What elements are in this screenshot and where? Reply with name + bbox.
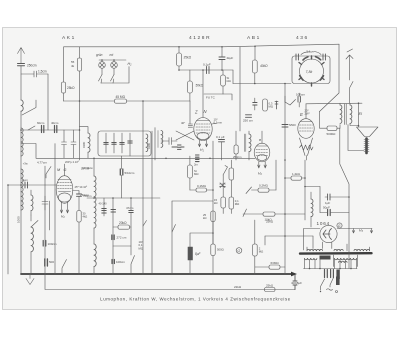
svg-text:El: El bbox=[359, 111, 363, 116]
wire cap branch down bbox=[47, 74, 49, 130]
svg-text:rot: rot bbox=[110, 53, 114, 57]
AB1 tube base bbox=[257, 155, 267, 161]
svg-text:0,2MΩ: 0,2MΩ bbox=[259, 184, 269, 188]
switch above L3 bbox=[31, 215, 38, 227]
coil osc lower bbox=[94, 244, 96, 266]
resistor 0,3M bbox=[263, 99, 268, 111]
svg-text:E: E bbox=[300, 112, 303, 117]
switch S2 bbox=[46, 167, 51, 179]
tone cap 50uF bbox=[328, 210, 331, 216]
wire x190 avc bbox=[189, 156, 191, 190]
resistor .55 bbox=[77, 58, 81, 71]
wire y143 link bbox=[21, 144, 36, 159]
wire y267 bbox=[255, 266, 285, 268]
coil 0370 bbox=[94, 176, 96, 228]
svg-text:22kΩ: 22kΩ bbox=[234, 285, 242, 289]
HV winding left bbox=[307, 249, 323, 250]
wire tube E bottom bbox=[305, 156, 307, 161]
svg-text:7,8k: 7,8k bbox=[306, 70, 313, 74]
heater feed line y101 bbox=[64, 100, 191, 102]
svg-text:35kΩ: 35kΩ bbox=[184, 56, 192, 60]
tube MG base bbox=[58, 193, 70, 202]
mixer tube AK1 bbox=[194, 118, 212, 141]
tuning line y130 bbox=[21, 129, 79, 131]
svg-text:200°μ 2·106: 200°μ 2·106 bbox=[65, 160, 79, 164]
drum segments bbox=[299, 56, 324, 86]
tube grids bbox=[196, 124, 210, 133]
resistor 100k small bbox=[234, 145, 238, 154]
mains tilde bbox=[327, 289, 333, 290]
tube E grids bbox=[300, 125, 313, 131]
svg-text:5/10cm: 5/10cm bbox=[125, 171, 135, 175]
svg-text:45 MΩ: 45 MΩ bbox=[116, 95, 126, 99]
wire x285 HT column bbox=[284, 84, 286, 275]
filter section wire b bbox=[113, 133, 115, 153]
capacitor 250cm det bbox=[246, 115, 252, 118]
wire x213 column bbox=[212, 141, 214, 244]
padder cap right bbox=[323, 54, 325, 60]
wire 30k bottom bbox=[78, 222, 80, 274]
header labels bbox=[62, 35, 309, 41]
tone cap 1uF bbox=[328, 194, 330, 200]
wire y178 bbox=[285, 177, 305, 179]
svg-text:2kμF: 2kμF bbox=[227, 56, 234, 60]
oscillator shield outline bbox=[320, 44, 340, 111]
resistor 1,2M horiz bbox=[291, 176, 302, 180]
switch on y130 bbox=[28, 126, 35, 130]
output transformer secondary bbox=[350, 105, 352, 123]
svg-text:4,77cm: 4,77cm bbox=[37, 161, 47, 165]
wave switch S1 bbox=[22, 100, 36, 115]
node box-x113 bbox=[112, 197, 114, 199]
cap NS bbox=[282, 125, 288, 128]
wire elco bbox=[190, 233, 213, 274]
rectifier cathode bbox=[323, 229, 332, 240]
resistor 0,3M right bbox=[221, 75, 226, 86]
svg-text:500Ω: 500Ω bbox=[217, 248, 224, 252]
wire x222 bbox=[221, 47, 223, 70]
wire x276 bbox=[275, 160, 277, 190]
resistor 15k bbox=[221, 197, 226, 208]
ground symbol bbox=[26, 274, 34, 285]
trimmer b bbox=[112, 143, 116, 145]
IF transformer coil bbox=[249, 134, 251, 152]
svg-text:Lumophon, Kraftton W, Wechsels: Lumophon, Kraftton W, Wechselstrom, 1 Vo… bbox=[100, 297, 291, 302]
transformer core bbox=[345, 104, 347, 125]
svg-text:250cm: 250cm bbox=[80, 193, 90, 197]
svg-text:45°°10·106: 45°°10·106 bbox=[75, 185, 88, 189]
node box-x94 bbox=[93, 197, 95, 199]
return wire bottom bbox=[45, 274, 295, 290]
wire x223 bbox=[222, 70, 224, 94]
filter section wire a bbox=[105, 133, 107, 153]
wire antenna down bbox=[20, 66, 22, 100]
HV winding outer drops bbox=[307, 244, 370, 251]
heater line right bbox=[337, 228, 372, 230]
svg-text:0,1MΩ: 0,1MΩ bbox=[197, 184, 207, 188]
grid cap bbox=[188, 101, 192, 127]
node x143-y101 bbox=[142, 100, 144, 102]
tube MG grids bbox=[58, 183, 72, 189]
svg-text:250 cm: 250 cm bbox=[243, 119, 253, 123]
osc wire bbox=[285, 93, 299, 107]
antenna coil L1 bbox=[21, 100, 23, 111]
avc resistor network: resistor 0,1M vert bbox=[188, 165, 193, 178]
wire x213 bias bbox=[212, 233, 214, 274]
tube side tap bbox=[212, 122, 217, 125]
node x285-y214 bbox=[284, 213, 286, 215]
switch near bottom x64 bbox=[62, 260, 67, 275]
resistor 5000 bbox=[327, 126, 337, 130]
wire x265 stub bbox=[264, 236, 266, 245]
wire x55 column bbox=[54, 144, 56, 275]
svg-text:1000: 1000 bbox=[16, 216, 20, 223]
wire avc right column bbox=[223, 160, 231, 214]
wire 20k left bbox=[113, 226, 131, 228]
line y236 bbox=[265, 235, 313, 237]
node x285-y178 bbox=[284, 177, 286, 179]
svg-text:4k: 4k bbox=[71, 64, 75, 68]
svg-text:25kΩ: 25kΩ bbox=[266, 220, 274, 224]
svg-text:0,1mm: 0,1mm bbox=[214, 121, 223, 125]
svg-text:N500: N500 bbox=[289, 123, 296, 127]
wire x143 long column bbox=[142, 101, 144, 274]
resistor right a bbox=[229, 168, 234, 180]
tube MG left bottom lead bbox=[49, 201, 51, 230]
resistor 20k bbox=[118, 225, 130, 229]
svg-text:4128R: 4128R bbox=[189, 35, 211, 41]
coil L4 bbox=[31, 195, 33, 211]
svg-text:AK1: AK1 bbox=[62, 35, 76, 41]
svg-text:MΩ: MΩ bbox=[259, 250, 263, 254]
coil L2b bbox=[21, 169, 23, 210]
wire x94 bottom bbox=[93, 267, 95, 275]
svg-text:ΩΩ: ΩΩ bbox=[227, 79, 231, 83]
svg-text:40cm: 40cm bbox=[51, 121, 59, 125]
svg-text:100cm: 100cm bbox=[48, 242, 58, 246]
wire x179 screen bbox=[178, 47, 180, 53]
heater tap arrow 2 bbox=[370, 229, 372, 234]
IF core dashes bbox=[244, 134, 246, 152]
mains cap pair bbox=[325, 270, 334, 278]
tone line y197 bbox=[325, 196, 349, 198]
wire x121.5 bbox=[121, 156, 123, 198]
wire x305 column bbox=[304, 160, 306, 220]
capacitor 100cm top bbox=[253, 103, 257, 106]
elco wire bbox=[293, 275, 297, 290]
svg-text:H1: H1 bbox=[200, 148, 204, 153]
capacitor 100cm lower bbox=[43, 241, 46, 247]
svg-text:0380: 0380 bbox=[147, 142, 151, 149]
svg-text:+3w: +3w bbox=[23, 162, 28, 166]
resistor 25k bbox=[61, 82, 65, 93]
svg-text:272 cm: 272 cm bbox=[117, 236, 127, 240]
elco 8uF bbox=[188, 247, 193, 260]
wire y190 bbox=[190, 189, 213, 191]
coil L2 bbox=[21, 128, 23, 156]
svg-text:2W°: 2W° bbox=[305, 112, 310, 116]
wire IF coil bbox=[248, 131, 250, 160]
HV winding right bbox=[354, 249, 370, 250]
wire left column bbox=[20, 130, 22, 274]
tube MG heater leads bbox=[60, 202, 68, 213]
wire x255 anode feed bbox=[254, 46, 256, 60]
node x222-y70 bbox=[221, 69, 223, 71]
node mains b bbox=[319, 268, 321, 270]
primary winding left bbox=[305, 258, 317, 259]
primary dark block bbox=[320, 256, 331, 260]
speaker cone bbox=[357, 127, 379, 137]
tube anode wire bbox=[202, 70, 204, 118]
node x285-y236 bbox=[284, 235, 286, 237]
resistor 25k mid bbox=[211, 211, 215, 222]
wire AK1 column x63.5 bbox=[63, 47, 65, 82]
svg-text:20kΩ: 20kΩ bbox=[119, 221, 127, 225]
svg-text:AB1: AB1 bbox=[247, 35, 261, 41]
svg-text:H3: H3 bbox=[359, 229, 363, 234]
svg-text:100cm: 100cm bbox=[116, 260, 126, 264]
padder wire x131 bbox=[130, 198, 132, 246]
wire 5000 left bbox=[320, 112, 328, 129]
padder wire x113 bbox=[112, 198, 114, 274]
resistor 35k bbox=[177, 53, 182, 66]
line y83 bbox=[233, 83, 291, 85]
node rail-x255 bbox=[254, 46, 256, 48]
speaker feed wires bbox=[340, 103, 359, 127]
line y186 bbox=[305, 186, 320, 188]
mains bus bbox=[304, 268, 358, 270]
svg-text:25kΩ: 25kΩ bbox=[67, 86, 75, 90]
switch 2k bbox=[223, 166, 228, 181]
svg-text:40kΩ: 40kΩ bbox=[260, 64, 268, 68]
svg-text:4μm: 4μm bbox=[22, 178, 28, 182]
capacitor 60cm bbox=[42, 126, 44, 133]
resistor 0,1M b bbox=[229, 197, 234, 209]
svg-text:60cm: 60cm bbox=[37, 121, 45, 125]
node mains d bbox=[350, 268, 352, 270]
band filter box bbox=[98, 131, 151, 156]
capacitor 40cm bbox=[55, 126, 57, 133]
wire x172 column bbox=[171, 201, 173, 274]
capacitor 272cm bbox=[112, 235, 114, 240]
heater tap arrow 1 bbox=[352, 229, 354, 234]
top HT rail bbox=[64, 44, 339, 47]
capacitor to ground x45 bbox=[42, 196, 48, 210]
svg-text:H2: H2 bbox=[128, 62, 133, 67]
node x305-y178 bbox=[304, 177, 306, 179]
node mains c bbox=[339, 268, 341, 270]
output transformer primary bbox=[340, 105, 342, 123]
svg-text:1,2kΩ: 1,2kΩ bbox=[292, 172, 301, 176]
transformer core bar bbox=[300, 252, 372, 255]
AB1 tube bbox=[254, 143, 270, 162]
wire x255 bottom column bbox=[254, 220, 256, 274]
wire cap 700 bbox=[73, 191, 80, 211]
lamp return wire bbox=[101, 67, 129, 84]
svg-text:MΩ: MΩ bbox=[139, 246, 143, 250]
node y158-x166 bbox=[165, 158, 167, 160]
wire 5000 right bbox=[337, 125, 340, 129]
resistor 500 bias bbox=[211, 244, 215, 256]
node x305-y186 bbox=[304, 186, 306, 188]
speaker return wire bbox=[348, 125, 364, 151]
node x285-y160 bbox=[284, 159, 286, 161]
capacitor 5/10cm bbox=[120, 169, 123, 175]
mains switch 1 bbox=[321, 279, 325, 290]
osc coil x161 bbox=[161, 131, 163, 148]
fuse resistor bbox=[336, 277, 340, 286]
node x358-y125 bbox=[358, 125, 360, 127]
svg-text:MΩ: MΩ bbox=[194, 172, 198, 176]
cathode zigzag bbox=[300, 145, 314, 150]
tube top line bbox=[197, 120, 210, 122]
wire 40k down bbox=[254, 73, 256, 84]
svg-text:4kΩ: 4kΩ bbox=[83, 215, 88, 219]
avc wire y201 bbox=[172, 200, 213, 202]
rectifier tube 1064 bbox=[320, 225, 337, 242]
svg-text:B: B bbox=[259, 138, 261, 142]
oscillator box top bbox=[87, 197, 160, 199]
coupling caps left of tube bbox=[161, 138, 177, 145]
lamp switch 1 bbox=[99, 75, 103, 84]
label FU TC box bbox=[204, 94, 232, 100]
capacitor 0,1uF anode bbox=[219, 140, 225, 142]
wire x79.5 down bbox=[79, 71, 81, 160]
speaker coil bar bbox=[365, 139, 368, 154]
svg-text:250cm: 250cm bbox=[233, 155, 242, 159]
HF pentode tube MG bbox=[56, 176, 73, 204]
osc cap 100cm bbox=[298, 97, 300, 103]
psu drops to mains line bbox=[305, 258, 357, 268]
svg-text:kΩ: kΩ bbox=[214, 201, 218, 205]
node x285-y83 bbox=[284, 83, 286, 85]
wire x179 to y70 bbox=[178, 66, 180, 70]
AB1 top line bbox=[257, 145, 268, 147]
node box-x131 bbox=[130, 197, 132, 199]
wire x79.5 top bbox=[79, 47, 81, 58]
capacitor 700cm bbox=[77, 194, 82, 196]
node rail-x222 bbox=[221, 46, 223, 48]
oscillator drum bbox=[300, 59, 324, 83]
capacitor 4mm bbox=[25, 182, 28, 188]
tube MG anode bbox=[59, 191, 71, 193]
ground bus (bold bottom rail) bbox=[21, 273, 292, 275]
svg-text:25kΩ: 25kΩ bbox=[266, 284, 274, 288]
psu right vertical bbox=[348, 229, 350, 269]
cap pair crossed bbox=[220, 183, 226, 188]
node y185-x8 bbox=[7, 184, 9, 186]
node x255-y83 bbox=[254, 83, 256, 85]
coil 0380 left bbox=[88, 133, 90, 152]
tube MG top lead bbox=[64, 164, 66, 176]
field coil drop bbox=[340, 128, 349, 228]
switch x172 bbox=[172, 225, 176, 233]
wire y158 bbox=[36, 157, 255, 159]
mains dark comp bbox=[336, 270, 339, 280]
node y130-x21 bbox=[20, 129, 22, 131]
third winding row bbox=[339, 261, 348, 262]
circled G bbox=[236, 248, 242, 254]
capacitor 100cm osc bbox=[112, 260, 114, 264]
lamp La1 bbox=[99, 62, 106, 69]
switch on y214 bbox=[243, 209, 247, 217]
tube heater leads bbox=[198, 140, 207, 147]
node x203-y70 bbox=[202, 69, 204, 71]
resistor 50k bbox=[188, 81, 193, 93]
rectifier anode drops bbox=[323, 242, 332, 249]
wire x236 bbox=[235, 131, 237, 160]
oscillator coil box bbox=[292, 56, 330, 84]
y236 drop into psu bbox=[312, 236, 314, 249]
resistor 0,2M horiz bbox=[258, 188, 269, 192]
capacitor 47cm bbox=[129, 211, 133, 213]
switch x131 bbox=[131, 256, 135, 275]
mixer tube base bbox=[197, 132, 209, 139]
svg-text:2m: 2m bbox=[194, 163, 199, 167]
circled G rect bbox=[337, 223, 342, 228]
coupling cap 2 bbox=[172, 145, 184, 149]
trimmer d bbox=[128, 141, 132, 143]
node mains a bbox=[309, 268, 311, 270]
svg-text:47cm: 47cm bbox=[126, 206, 134, 210]
tone line y213 bbox=[320, 212, 349, 214]
svg-text:FU TC: FU TC bbox=[206, 96, 216, 100]
wire x63.5 lower bbox=[63, 93, 65, 101]
resistor 0,1M horiz bbox=[196, 188, 207, 192]
AB1 anode wire bbox=[261, 131, 263, 144]
primary winding right bbox=[335, 258, 357, 259]
capacitor 500cm bbox=[45, 259, 48, 266]
psu winding box bbox=[334, 255, 358, 267]
switch x143 top bbox=[143, 221, 147, 227]
capacitor 0,1uF top bbox=[207, 67, 210, 74]
output tube E bbox=[298, 119, 314, 139]
pickup arrow top right bbox=[346, 49, 353, 80]
tube E cathode cone bbox=[300, 138, 313, 156]
grid line y185 bbox=[8, 184, 56, 186]
wire x152 long column bbox=[151, 131, 153, 274]
HV winding mid bbox=[334, 249, 343, 250]
wire 50k bbox=[189, 70, 191, 101]
node x349-y197 bbox=[348, 196, 350, 198]
AB1 grids bbox=[256, 150, 268, 156]
svg-text:Z: Z bbox=[194, 110, 198, 115]
resistor 10k horiz bbox=[263, 212, 275, 216]
node y158-x210 bbox=[209, 158, 211, 160]
wire x221.5 det bbox=[221, 142, 223, 160]
dial lamps feed wire bbox=[99, 59, 126, 61]
node x213-y233 bbox=[212, 232, 214, 234]
mains plug dot bbox=[336, 291, 338, 293]
svg-text:0,1μF: 0,1μF bbox=[203, 63, 211, 67]
mains switch 2 bbox=[330, 278, 334, 288]
choke coil bbox=[311, 199, 313, 217]
resistor 40k bbox=[252, 60, 257, 73]
wire x8 column bbox=[7, 185, 9, 274]
tube E anode bbox=[305, 104, 307, 119]
wire x45 column bbox=[44, 166, 46, 274]
terminal dot left bbox=[320, 291, 321, 292]
node rail-x179 bbox=[178, 46, 180, 48]
trimmer a bbox=[104, 143, 108, 145]
lamp switch 2 bbox=[111, 75, 115, 84]
node x79-y130 bbox=[79, 129, 81, 131]
svg-text:G: G bbox=[64, 168, 67, 172]
cross wires to tube bbox=[176, 131, 194, 140]
node x79-y101 bbox=[79, 100, 81, 102]
resistor 63M horiz bbox=[269, 265, 280, 269]
svg-text:50μF: 50μF bbox=[323, 206, 330, 210]
